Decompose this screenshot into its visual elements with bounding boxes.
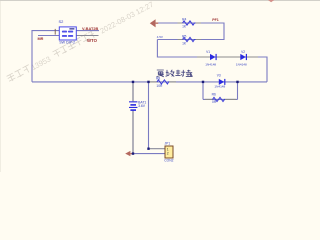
svg-text:WTO: WTO (87, 38, 98, 43)
svg-text:1N4148: 1N4148 (236, 62, 247, 66)
left edge faint line (0, 1, 1, 172)
svg-text:V1: V1 (206, 50, 210, 54)
wire: gray segment of diode row (197, 56, 258, 58)
svg-text:S2: S2 (59, 19, 65, 24)
svg-text:1N4148: 1N4148 (214, 85, 225, 89)
diode V3 (214, 74, 225, 89)
svg-text:V3: V3 (217, 74, 221, 78)
svg-text:1: 1 (167, 147, 169, 151)
wire: main bottom rail (32, 81, 267, 83)
resistor R4 (182, 18, 195, 29)
cropped pink arrow at top edge (268, 0, 274, 2)
switch pin1 number tick (54, 29, 56, 35)
wire: gray pin segments near R6 (205, 98, 236, 100)
wire: connector pin1 wire (149, 148, 166, 150)
wire: vertical from rail to connector pin1 (148, 82, 150, 149)
resistor R8 (156, 77, 169, 89)
wire: top loop (PF1 net) (157, 23, 224, 40)
wire: switch pin4 right stub (net V-BAT2B) (76, 30, 99, 32)
battery BAT1 (129, 100, 146, 111)
wire: vertical joining loop to diode row (157, 40, 267, 82)
note text 更改封装 (drawn strokes) (157, 70, 193, 77)
diode V1 (205, 50, 216, 67)
svg-text:R5: R5 (182, 34, 186, 38)
svg-text:V-BAT2B: V-BAT2B (82, 26, 99, 31)
svg-text:CON2: CON2 (164, 158, 173, 162)
wire: battery vertical bottom (132, 110, 134, 153)
char 装 (186, 70, 193, 77)
connector JP1 (164, 142, 173, 163)
char 更 (157, 70, 164, 77)
resistor R6 (212, 93, 225, 105)
wire: switch pin2 left stub (net MR) (38, 35, 59, 37)
wire: switch pin3 right stub (net WTO) (76, 35, 98, 37)
wire: switch pin1 left wire + left vertical rail (32, 31, 59, 82)
resistor R5 (182, 34, 195, 45)
junction dot connector pin1 (147, 148, 149, 150)
junction dot combo left (202, 81, 204, 83)
port arrow top (to PF1 loop) (150, 19, 158, 27)
svg-text:1N4148: 1N4148 (205, 62, 216, 66)
junction dot battery/pin2 wire (132, 152, 134, 154)
svg-text:PF1: PF1 (212, 18, 219, 22)
switch S2 body (59, 27, 76, 40)
wire: parallel combo left vertical (202, 82, 204, 100)
wire: parallel combo right vertical (237, 82, 239, 100)
watermark diagonal text (7, 0, 155, 84)
wire: battery vertical top (132, 82, 134, 101)
junction dot combo right (236, 81, 238, 83)
svg-text:3.6V: 3.6V (138, 104, 146, 108)
diode V2 (236, 50, 247, 67)
svg-text:0R: 0R (212, 100, 217, 104)
char 改 (166, 70, 175, 77)
svg-text:R8: R8 (156, 77, 160, 81)
svg-text:2: 2 (167, 152, 169, 156)
wire: gray pin segments on rail near R8 (149, 81, 177, 83)
svg-text:4.5V: 4.5V (157, 35, 163, 39)
port arrow bottom (battery minus) (125, 151, 133, 156)
wire: connector pin2 wire (131, 153, 166, 155)
wire: gray pin segments near R4/R5 (178, 23, 202, 40)
top window border line (0, 0, 320, 1)
svg-text:V2: V2 (241, 50, 245, 54)
wire: parallel combo bottom branch (203, 98, 238, 100)
svg-text:10R: 10R (156, 84, 163, 88)
svg-text:JP1: JP1 (165, 142, 171, 146)
junction dot rail/battery (132, 81, 134, 83)
svg-text:R4: R4 (182, 18, 186, 22)
svg-text:R6: R6 (212, 93, 216, 97)
svg-text:MR: MR (38, 37, 44, 41)
char 封 (175, 70, 185, 77)
junction dot rail/connector vertical (147, 81, 149, 83)
svg-text:SW DIP-2: SW DIP-2 (59, 40, 75, 44)
